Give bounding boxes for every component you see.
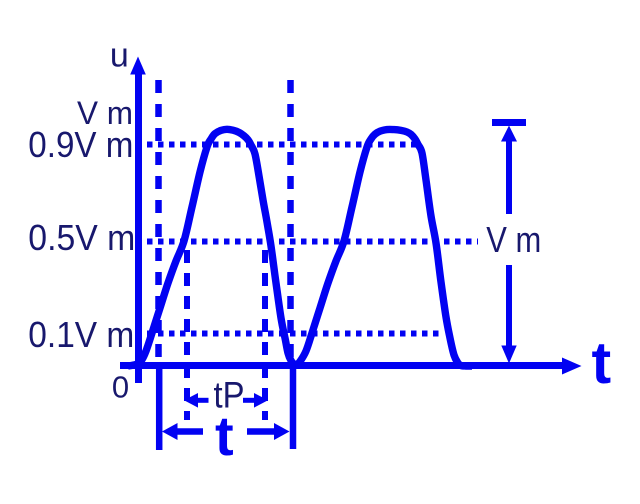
svg-text:t: t bbox=[592, 330, 612, 396]
svg-text:t: t bbox=[215, 404, 234, 467]
svg-text:u: u bbox=[110, 37, 129, 75]
svg-text:0.9V m: 0.9V m bbox=[28, 124, 133, 165]
svg-text:0.1V m: 0.1V m bbox=[28, 314, 134, 355]
svg-text:0: 0 bbox=[112, 370, 129, 405]
svg-text:V m: V m bbox=[486, 219, 541, 260]
svg-text:0.5V m: 0.5V m bbox=[28, 217, 135, 258]
